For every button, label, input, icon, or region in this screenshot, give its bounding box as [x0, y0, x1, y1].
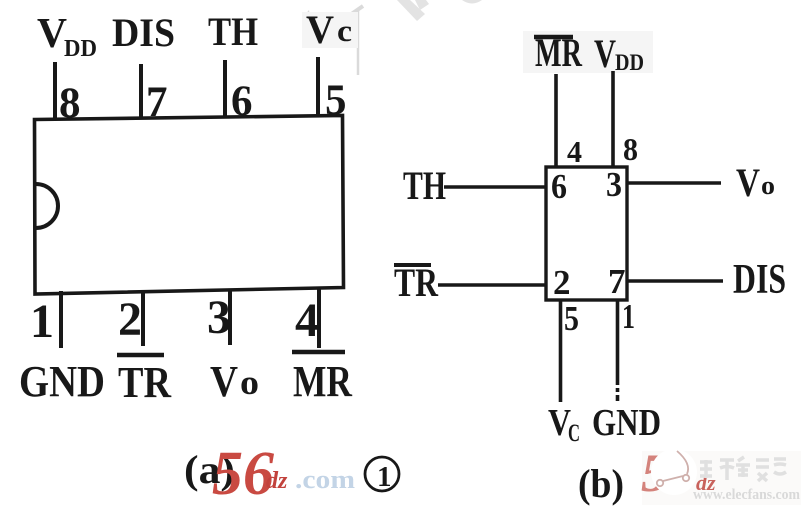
svg-text:TH: TH	[208, 9, 258, 54]
circled figure number 1	[365, 457, 399, 491]
svg-text:1: 1	[622, 297, 635, 336]
svg-text:C: C	[568, 420, 580, 447]
svg-text:6: 6	[551, 167, 567, 206]
pin-1 notch semicircle	[36, 184, 58, 228]
svg-text:TR: TR	[394, 260, 439, 305]
IC block body (b)	[546, 167, 627, 300]
svg-text:GND: GND	[19, 357, 105, 406]
watermark white circle logo	[651, 449, 697, 495]
svg-text:3: 3	[207, 291, 231, 344]
svg-text:V: V	[306, 7, 334, 52]
svg-text:56: 56	[212, 440, 274, 506]
label TR overline (diagram b)	[394, 263, 431, 267]
svg-text:(b): (b)	[578, 461, 624, 506]
svg-text:TH: TH	[403, 163, 446, 208]
pin 8 stub wire	[53, 62, 57, 119]
svg-text:MR: MR	[535, 30, 583, 75]
pin 5 stub wire	[316, 57, 320, 116]
svg-text:4: 4	[567, 134, 582, 169]
svg-text:DIS: DIS	[733, 257, 786, 303]
svg-text:7: 7	[608, 262, 626, 301]
svg-text:V: V	[210, 357, 238, 406]
svg-text:5: 5	[564, 299, 579, 338]
svg-text:1: 1	[30, 295, 54, 348]
svg-text:c: c	[337, 13, 352, 48]
wire MR to pin 4	[554, 74, 558, 167]
wire VDD to pin 8	[611, 71, 615, 167]
scan shading behind MR VDD labels (b)	[523, 31, 653, 73]
pin 1 stub wire	[59, 291, 63, 348]
wire pin 1 to GND (with scan break)	[616, 300, 620, 401]
wire pin 7 to DIS	[627, 279, 723, 283]
wire TR to pin 2	[438, 283, 546, 287]
svg-text:4: 4	[295, 294, 319, 347]
svg-text:2: 2	[553, 263, 571, 302]
svg-text:2: 2	[118, 293, 142, 346]
pin 6 stub wire	[223, 60, 227, 117]
watermark gray vertical stroke near Vc	[303, 6, 363, 75]
svg-text:DD: DD	[615, 50, 644, 75]
svg-text:o: o	[761, 171, 775, 200]
scan shading behind Vc label	[302, 12, 358, 48]
watermark embossed elecfans characters	[700, 457, 786, 481]
svg-text:dz: dz	[266, 468, 288, 494]
scan shading bottom-right corner	[642, 451, 801, 505]
pin 2 stub wire	[141, 290, 145, 346]
svg-text:TR: TR	[118, 358, 172, 407]
label TR overline	[117, 353, 164, 358]
svg-text:1: 1	[377, 461, 392, 493]
wire pin 5 to VC	[559, 300, 563, 402]
svg-text:GND: GND	[592, 402, 661, 444]
svg-text:www.elecfans.com: www.elecfans.com	[693, 487, 800, 503]
svg-text:MR: MR	[293, 357, 353, 406]
watermark gray diagonal bars top center	[397, 0, 482, 21]
svg-text:DIS: DIS	[112, 10, 175, 55]
label MR overline (diagram b)	[534, 35, 573, 40]
svg-text:o: o	[240, 363, 259, 402]
svg-text:.com: .com	[295, 465, 355, 494]
wire pin 3 to Vo	[627, 181, 721, 185]
svg-text:3: 3	[606, 165, 622, 204]
svg-text:V: V	[37, 11, 67, 57]
svg-text:DD: DD	[64, 36, 97, 62]
pin 3 stub wire	[228, 289, 232, 345]
pin 4 stub wire	[317, 287, 321, 348]
label MR overline	[292, 350, 345, 355]
IC package body (a)	[35, 116, 344, 295]
svg-text:V: V	[594, 31, 616, 76]
pin 7 stub wire	[139, 64, 143, 118]
svg-text:V: V	[736, 160, 760, 205]
svg-text:8: 8	[623, 131, 638, 167]
wire TH to pin 6	[444, 185, 546, 189]
